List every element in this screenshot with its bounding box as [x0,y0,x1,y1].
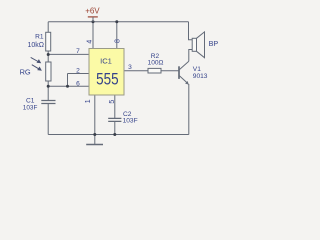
capacitor C1 [41,101,55,104]
wire pin 2 [68,73,90,75]
svg-text:R1: R1 [35,34,44,41]
wire collector to speaker [189,50,192,62]
svg-text:BP: BP [209,39,219,48]
svg-text:+6V: +6V [85,7,100,16]
label C1 [26,97,35,104]
svg-text:3: 3 [128,64,132,71]
transistor V1 [179,61,189,84]
svg-text:IC1: IC1 [100,56,112,65]
power +6V [85,7,100,22]
svg-text:V1: V1 [193,66,201,73]
svg-text:6: 6 [76,81,80,88]
wire top rail [48,21,188,23]
label BP [209,39,219,48]
svg-text:2: 2 [76,67,80,74]
wire emitter to bottom rail [188,84,190,135]
wire rail down to speaker top [189,22,193,40]
value 100Ω [148,59,164,66]
svg-text:10kΩ: 10kΩ [27,42,44,49]
pin 6 [76,81,80,88]
svg-text:RG: RG [20,68,31,77]
pin 7 [76,48,80,55]
pin 4 [86,40,93,44]
label C2 [123,111,132,118]
value 9013 [193,73,208,80]
svg-text:7: 7 [76,48,80,55]
wire R1 to RG [47,51,49,62]
wire pin2-pin6 tie [67,74,69,87]
resistor R2 [148,68,161,73]
svg-text:103F: 103F [23,104,38,111]
label IC1 [100,56,112,65]
label 555 [96,71,119,89]
ground [86,135,103,145]
svg-text:4: 4 [86,40,93,44]
svg-text:103F: 103F [123,118,138,125]
wire pin 7 [48,53,89,55]
wire R2 to base [161,70,179,72]
resistor R1 [46,32,51,51]
label V1 [193,66,201,73]
pin 2 [76,67,80,74]
wire bottom rail [48,134,189,136]
svg-text:9013: 9013 [193,73,208,80]
photoresistor RG [46,62,51,81]
junction node rail pin8 [115,20,118,23]
label R2 [151,53,160,60]
wire pin 6 [48,85,89,87]
speaker BP [192,32,204,58]
pin 3 [128,64,132,71]
value C1 103F [23,104,38,111]
wire pin 4 to rail [92,22,94,49]
junction node C2 rail [113,133,116,136]
wire pin 8 to rail [116,22,118,49]
wire C1 to bottom rail [47,104,49,135]
pin 5 [109,100,116,104]
value C2 103F [123,118,138,125]
junction node R1/RG/pin7 [47,53,50,56]
wire C2 to bottom rail [114,122,116,135]
pin 1 [85,99,92,103]
junction node ground [93,133,96,136]
pin 8 [115,39,122,43]
label R1 [35,34,44,41]
svg-text:555: 555 [96,71,119,89]
junction node pin2 tie [66,85,69,88]
wire pin 5 to C2 [114,95,116,118]
svg-text:1: 1 [85,99,92,103]
junction node RG/C1/pin6 [47,85,50,88]
label RG [20,68,31,77]
capacitor C2 [108,118,121,121]
wire pin 1 to ground rail [94,95,96,135]
svg-text:C1: C1 [26,97,35,104]
wire pin 3 to R2 [124,70,148,72]
IC U1 555 body [89,49,124,96]
wire RG to C1 [47,81,49,100]
wire left rail to R1 [47,22,49,33]
light arrows into RG [31,57,42,70]
svg-text:8: 8 [115,39,122,43]
svg-text:100Ω: 100Ω [148,59,164,66]
svg-text:5: 5 [109,100,116,104]
junction node rail pin4 [92,20,95,23]
value 10kΩ [27,42,44,49]
